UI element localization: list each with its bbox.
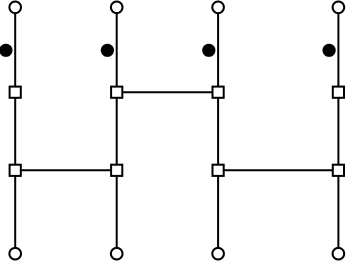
filled dot: left of line2: [101, 44, 114, 57]
square node: line3 lower: [213, 165, 224, 176]
wire: vertical line 1: [14, 7, 16, 253]
filled dot: left of line4: [323, 44, 336, 57]
square node: line2 lower: [111, 165, 122, 176]
square node: line3 upper: [213, 87, 224, 98]
open circle terminal: line3 bottom: [212, 248, 224, 260]
open circle terminal: line1 bottom: [9, 248, 21, 260]
open circle terminal: line2 bottom: [111, 248, 123, 260]
square node: line1 upper: [10, 87, 21, 98]
wire: horizontal connector line3-line4 lower level: [218, 169, 338, 171]
square node: line4 lower: [333, 165, 344, 176]
wire: horizontal connector line1-line2 lower level: [15, 169, 117, 171]
wire: vertical line 2: [116, 7, 118, 253]
open circle terminal: line4 bottom: [333, 248, 345, 260]
filled dot: left of line3: [202, 44, 215, 57]
square node: line4 upper: [333, 87, 344, 98]
wire: vertical line 4: [337, 7, 339, 253]
wire: horizontal connector line2-line3 upper level: [117, 91, 218, 93]
open circle terminal: line4 top: [333, 2, 345, 14]
square node: line1 lower: [10, 165, 21, 176]
square node: line2 upper: [111, 87, 122, 98]
open circle terminal: line1 top: [9, 2, 21, 14]
open circle terminal: line2 top: [111, 2, 123, 14]
wire: vertical line 3: [217, 7, 219, 253]
filled dot: left of line1: [0, 44, 13, 57]
open circle terminal: line3 top: [212, 2, 224, 14]
